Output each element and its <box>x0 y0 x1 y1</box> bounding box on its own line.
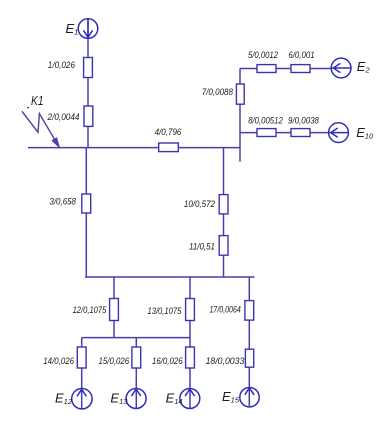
svg-text:9/0,0038: 9/0,0038 <box>288 116 319 126</box>
source E10 circle <box>329 123 349 143</box>
source E15 arrow <box>245 388 254 395</box>
resistor R6 value 6/0,001 <box>291 65 310 73</box>
source E14 arrow <box>185 389 194 396</box>
resistor R11 value 11/0,51 <box>219 236 228 256</box>
wire branch R10 R11 vertical <box>223 148 225 277</box>
source E15 circle <box>240 388 259 407</box>
svg-text:E1: E1 <box>66 21 79 37</box>
wire bus2 to R13 to R16 to E14 <box>189 277 191 408</box>
resistor R7 value 7/0,0088 <box>236 84 244 104</box>
svg-text:12/0,1075: 12/0,1075 <box>73 305 108 315</box>
svg-text:11/0,51: 11/0,51 <box>189 242 215 252</box>
resistor R9 value 9/0,0038 <box>291 129 310 137</box>
wire branch to E2 <box>240 68 331 70</box>
resistor R8 value 8/0,00512 <box>257 129 276 137</box>
svg-text:E15: E15 <box>222 389 240 405</box>
svg-text:7/0,0088: 7/0,0088 <box>202 87 233 97</box>
resistor R12 value 12/0,1075 <box>110 299 119 321</box>
wire bus3 horizontal <box>82 337 190 339</box>
svg-text:18/0,0033: 18/0,0033 <box>206 356 245 366</box>
wire bus1 main horizontal <box>28 147 240 149</box>
svg-text:6/0,001: 6/0,001 <box>288 50 314 60</box>
wire branch to E10 <box>240 132 329 134</box>
svg-text:E2: E2 <box>357 59 371 75</box>
svg-text:14/0,026: 14/0,026 <box>43 356 74 366</box>
svg-text:1/0,026: 1/0,026 <box>48 60 75 70</box>
svg-text:4/0,796: 4/0,796 <box>155 127 182 137</box>
wire bus3 to R14 to E12 <box>81 338 83 409</box>
fault K1 lightning arrow <box>22 111 58 144</box>
resistor R4 value 4/0,796 <box>159 143 179 152</box>
svg-text:10/0,572: 10/0,572 <box>184 199 215 209</box>
svg-text:15/0,026: 15/0,026 <box>99 356 130 366</box>
svg-text:E14: E14 <box>166 391 183 407</box>
source E13 arrow <box>131 389 140 396</box>
resistor R15 value 15/0,026 <box>132 347 141 368</box>
wire right vertical riser <box>239 69 241 162</box>
svg-text:K1: K1 <box>31 93 44 108</box>
resistor R18 value 18/0,0033 <box>245 349 253 367</box>
source E10 arrow <box>329 128 349 137</box>
source E12 arrow <box>77 389 86 396</box>
svg-text:16/0,026: 16/0,026 <box>152 356 183 366</box>
source E2 circle <box>331 58 351 78</box>
wire bus2 to R17 to R18 to E15 <box>248 277 250 407</box>
svg-text:8/0,00512: 8/0,00512 <box>248 116 283 126</box>
resistor R13 value 13/0,1075 <box>186 299 195 321</box>
svg-text:17/0,0064: 17/0,0064 <box>210 305 241 315</box>
svg-text:E13: E13 <box>110 391 128 407</box>
wire bus1 to R3 to bus2 <box>85 148 87 277</box>
svg-text:13/0,1075: 13/0,1075 <box>148 306 183 316</box>
source E1 circle <box>78 19 98 39</box>
svg-text:5/0,0012: 5/0,0012 <box>248 50 278 60</box>
svg-text:3/0,658: 3/0,658 <box>49 197 76 207</box>
wire bus3 to R15 to E13 <box>135 338 137 409</box>
svg-text:E10: E10 <box>356 125 374 141</box>
resistor R5 value 5/0,0012 <box>257 65 276 73</box>
svg-text:2/0,0044: 2/0,0044 <box>47 112 80 122</box>
resistor R1 value 1/0,026 <box>84 58 93 78</box>
resistor R3 value 3/0,658 <box>82 194 91 213</box>
source E2 arrow <box>331 63 351 72</box>
resistor R16 value 16/0,026 <box>186 347 195 368</box>
resistor R17 value 17/0,0064 <box>245 301 254 321</box>
source E13 circle <box>126 389 146 409</box>
svg-text:E12: E12 <box>55 391 73 407</box>
resistor R14 value 14/0,026 <box>77 347 86 368</box>
source E12 circle <box>72 389 92 409</box>
wire bus2 horizontal <box>85 276 255 278</box>
wire bus2 to R12 to bus3 <box>113 277 115 338</box>
resistor R10 value 10/0,572 <box>219 195 228 214</box>
resistor R2 value 2/0,0044 <box>84 106 93 126</box>
source E14 circle <box>180 389 200 409</box>
wire E1 to R2 vertical <box>87 19 89 148</box>
source E1 arrow <box>83 19 92 38</box>
stray ink dot <box>27 107 29 109</box>
